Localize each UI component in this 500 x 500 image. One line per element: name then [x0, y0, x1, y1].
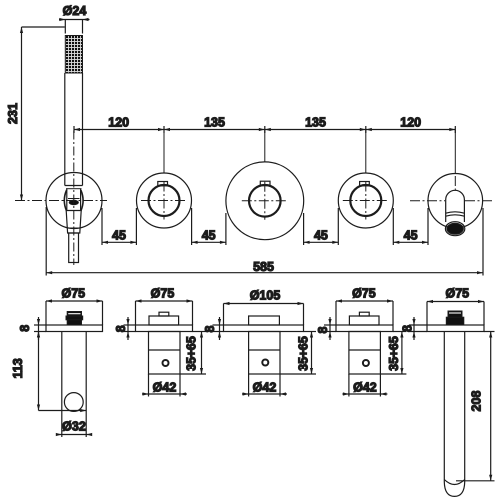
v3 wall plate — [224, 325, 304, 332]
svg-text:35÷65: 35÷65 — [297, 336, 311, 371]
escutcheon circle 2 — [137, 173, 192, 228]
dimension 45 (gap 3-4) — [304, 208, 339, 245]
v4 dimension Ø75 — [336, 286, 393, 325]
v5 aerator nozzle — [446, 311, 464, 325]
svg-text:8: 8 — [114, 325, 128, 332]
dimension 231 (vertical left) — [6, 27, 65, 201]
circle 4 handle notch — [360, 182, 370, 186]
v4 valve body — [349, 332, 381, 375]
svg-text:113: 113 — [11, 358, 25, 378]
svg-text:Ø75: Ø75 — [445, 286, 469, 300]
v1 dimension 8 — [18, 317, 46, 340]
dimension Ø24 — [59, 4, 90, 34]
escutcheon circle 1 (handshower holder) — [46, 173, 102, 229]
circle 5 centerlines — [410, 176, 495, 201]
dimension 45 (gap 2-3) — [192, 208, 226, 245]
svg-text:Ø75: Ø75 — [61, 286, 85, 300]
svg-text:Ø105: Ø105 — [250, 289, 281, 303]
escutcheon circle 5 (spout) — [428, 174, 483, 229]
svg-text:Ø75: Ø75 — [151, 286, 175, 300]
circle 3 handle inner circle — [249, 185, 281, 217]
circle 2 handle inner circle — [149, 185, 180, 216]
handshower head (hatched) — [65, 36, 82, 74]
circle 3 centerlines — [242, 182, 288, 220]
v2 wall plate — [136, 325, 193, 332]
svg-text:120: 120 — [108, 116, 129, 130]
escutcheon circle 4 — [338, 173, 393, 228]
svg-text:8: 8 — [203, 325, 217, 332]
v3 dimension 35÷65 — [280, 332, 316, 375]
v2 dimension Ø42 — [142, 374, 187, 397]
svg-text:45: 45 — [202, 229, 216, 243]
v4 wall plate — [336, 325, 393, 332]
svg-text:Ø42: Ø42 — [353, 380, 377, 394]
circle 1 horizontal centerline — [15, 200, 107, 202]
v3 dimension Ø105 — [224, 289, 304, 326]
v4 handle cap — [349, 312, 379, 325]
v2 dimension Ø75 — [136, 286, 193, 325]
svg-text:Ø32: Ø32 — [62, 420, 86, 434]
v2 dimension 8 — [114, 317, 136, 340]
v1 dimension 113 — [11, 332, 86, 413]
top dimension line 120/135/135/120 — [74, 116, 455, 134]
v1 ball end — [64, 393, 83, 412]
dimension 585 (overall) — [46, 207, 483, 276]
circle 4 centerlines — [343, 182, 390, 220]
v3 thermostat body — [249, 332, 280, 375]
v2 valve body — [149, 332, 181, 375]
svg-text:45: 45 — [404, 229, 418, 243]
svg-text:120: 120 — [400, 116, 421, 130]
circle 3 handle notch — [260, 181, 270, 185]
spout front view U-tube — [446, 190, 465, 222]
v5 dimension 208 — [456, 332, 495, 481]
svg-text:231: 231 — [6, 103, 20, 124]
svg-text:585: 585 — [253, 260, 274, 274]
v4 dimension 8 — [316, 317, 336, 340]
v1 wall plate — [46, 325, 103, 332]
v5 spout tube — [444, 332, 464, 497]
v1 dimension Ø32 — [56, 420, 92, 437]
v3 handle cap — [249, 316, 280, 325]
svg-text:45: 45 — [112, 229, 126, 243]
circle 4 handle inner circle — [350, 185, 381, 216]
svg-text:45: 45 — [314, 229, 328, 243]
svg-text:208: 208 — [470, 391, 484, 412]
v5 dimension 8 — [401, 317, 428, 340]
holder vertical centerline — [73, 131, 75, 266]
svg-text:Ø24: Ø24 — [63, 4, 87, 18]
circle 2 centerlines — [141, 182, 188, 220]
circle 2 handle notch — [158, 182, 168, 186]
svg-text:35÷65: 35÷65 — [387, 336, 401, 371]
svg-text:8: 8 — [401, 325, 415, 332]
v1 holder tube — [62, 332, 86, 438]
svg-text:35÷65: 35÷65 — [185, 336, 199, 371]
v3 dimension Ø42 — [242, 374, 287, 397]
svg-text:8: 8 — [316, 326, 330, 333]
svg-text:135: 135 — [305, 116, 326, 130]
extension line to circle 5 — [454, 130, 456, 175]
svg-text:Ø75: Ø75 — [352, 286, 376, 300]
extension line to circle 4 — [365, 130, 367, 173]
dimension 45 (gap 1-2) — [102, 208, 136, 245]
svg-text:8: 8 — [18, 325, 32, 332]
v2 dimension 35÷65 — [180, 332, 206, 375]
escutcheon circle 3 (thermostat, larger) — [226, 162, 304, 240]
svg-text:135: 135 — [204, 116, 225, 130]
v2 handle cap — [149, 312, 179, 325]
svg-text:Ø42: Ø42 — [153, 380, 177, 394]
handshower inlet nipple — [69, 233, 79, 263]
v1 holder knob — [66, 312, 83, 326]
holder cup in circle 1 — [64, 186, 83, 212]
handshower handle tube — [65, 73, 83, 186]
v4 dimension Ø42 — [342, 374, 387, 397]
v5 wall plate — [427, 325, 484, 332]
dimension 45 (gap 4-5) — [393, 208, 428, 245]
v3 dimension 8 — [203, 317, 224, 340]
handshower lower taper in circle 1 — [66, 211, 81, 234]
spout mouth — [445, 222, 464, 236]
v5 dimension Ø75 — [427, 286, 484, 325]
v4 dimension 35÷65 — [380, 332, 406, 375]
v1 dimension Ø75 — [46, 286, 103, 325]
extension line to circle 3 — [264, 130, 266, 162]
svg-text:Ø42: Ø42 — [253, 380, 277, 394]
extension line to circle 2 — [163, 130, 165, 173]
